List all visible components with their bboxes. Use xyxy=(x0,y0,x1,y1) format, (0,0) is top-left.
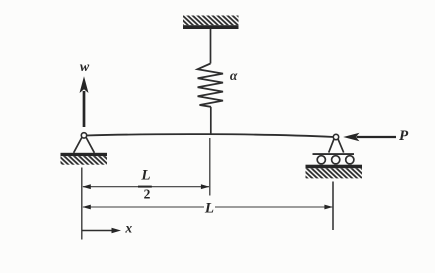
roller support right triangle xyxy=(329,139,344,152)
svg-text:α: α xyxy=(230,68,238,83)
extension line mid xyxy=(209,138,211,196)
svg-text:L: L xyxy=(204,201,214,217)
pin support left triangle xyxy=(74,137,95,152)
roller 3 xyxy=(346,156,354,164)
svg-text:x: x xyxy=(124,220,132,235)
spring bottom link wire xyxy=(210,107,212,135)
svg-text:P: P xyxy=(399,128,409,144)
fixed ceiling support hatch xyxy=(183,16,239,26)
fixed ceiling support bar xyxy=(183,25,239,29)
spring top link wire xyxy=(210,29,212,64)
label L/2 fraction bar xyxy=(138,186,152,188)
extension line right xyxy=(332,182,334,231)
roller 2 xyxy=(332,156,340,164)
pin support left ground bar xyxy=(61,153,108,156)
roller 1 xyxy=(317,156,325,164)
extension line left xyxy=(81,168,83,240)
pin support left circle xyxy=(81,133,86,138)
force P arrow xyxy=(343,133,396,142)
dimension line L/2 xyxy=(82,184,209,189)
spring alpha coil xyxy=(198,64,223,107)
roller support right bar xyxy=(313,153,355,155)
roller support right pin circle xyxy=(333,134,338,139)
roller support right ground bar xyxy=(306,165,363,169)
svg-text:w: w xyxy=(80,60,90,75)
beam xyxy=(86,134,334,137)
x axis arrow xyxy=(82,228,121,234)
pin support left ground hatch xyxy=(61,156,108,165)
svg-text:L: L xyxy=(140,168,150,184)
dimension line L xyxy=(82,201,333,213)
force w arrow xyxy=(80,76,89,127)
svg-text:2: 2 xyxy=(144,186,151,201)
roller support right ground hatch xyxy=(306,168,363,178)
